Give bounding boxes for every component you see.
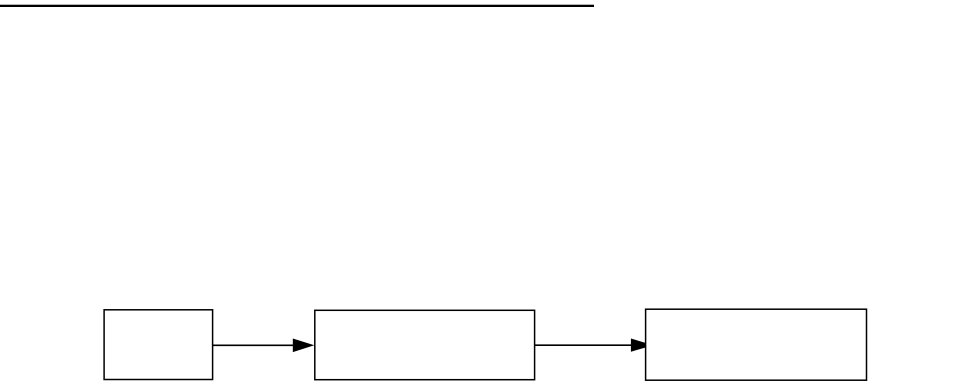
box B2 xyxy=(315,310,535,379)
wire: arrow shaft from box B2 to box B3 xyxy=(535,344,633,346)
arrowhead into box B3 (tip clipped by box B3) xyxy=(631,339,653,352)
arrowhead into box B2 xyxy=(293,339,315,353)
box B3 xyxy=(646,309,867,380)
box B1 xyxy=(104,310,213,380)
wire: arrow shaft from box B1 to box B2 xyxy=(213,344,295,346)
top horizontal rule xyxy=(0,5,594,7)
